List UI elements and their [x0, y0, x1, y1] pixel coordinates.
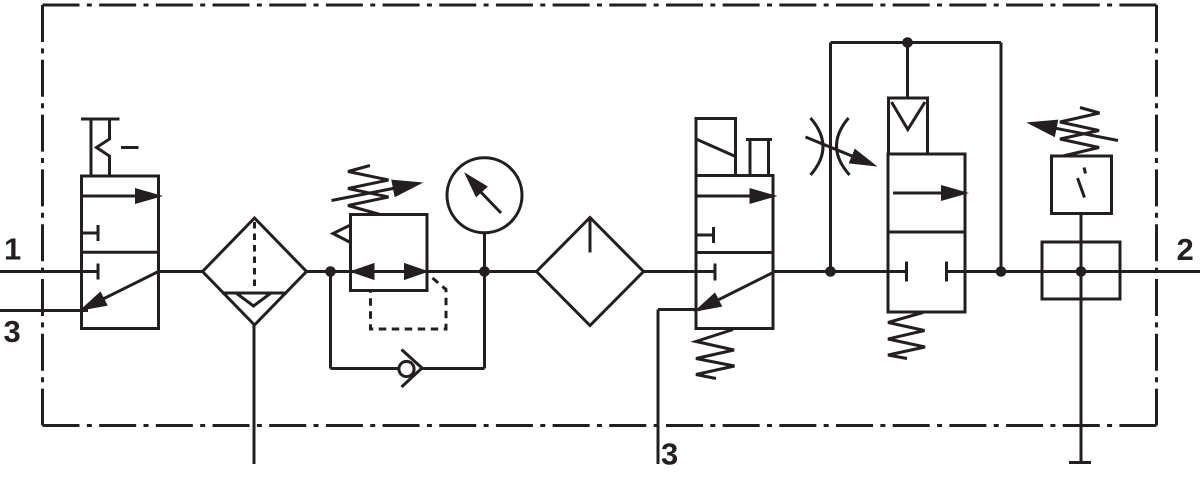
- svg-text:1: 1: [4, 232, 21, 267]
- svg-text:3: 3: [4, 314, 21, 349]
- svg-text:2: 2: [1177, 232, 1194, 267]
- svg-text:3: 3: [661, 437, 678, 472]
